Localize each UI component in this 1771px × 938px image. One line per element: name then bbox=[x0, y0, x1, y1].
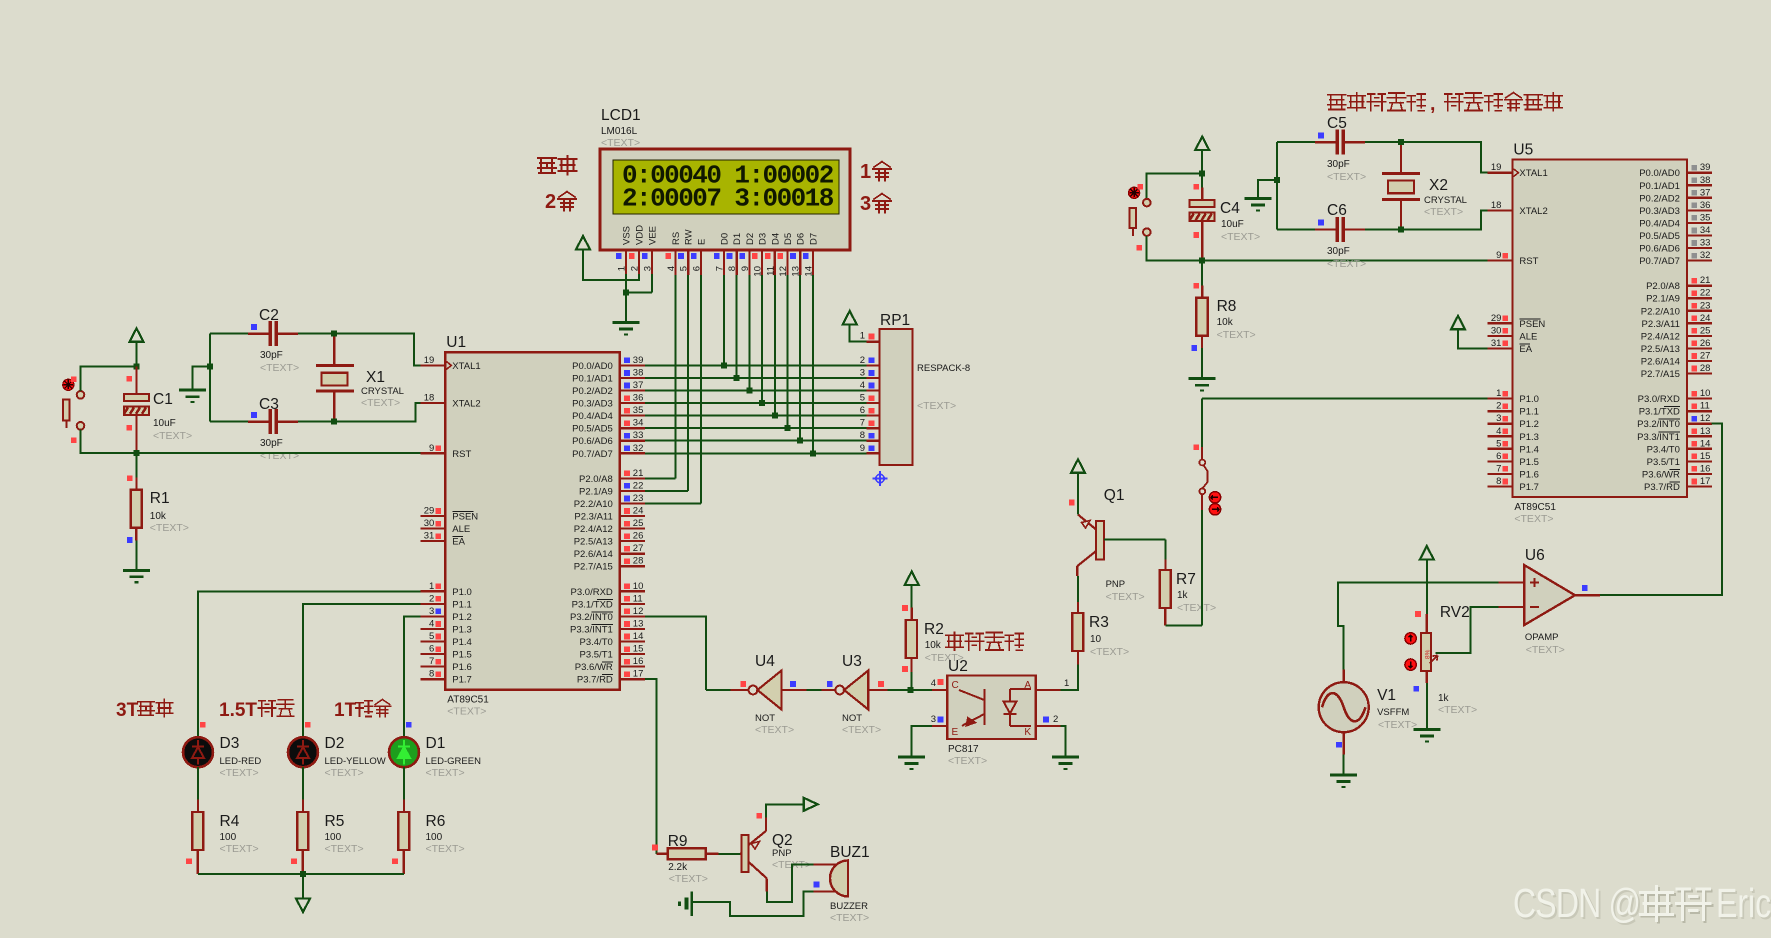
capacitor C3 bbox=[270, 409, 276, 434]
state square C4 top bbox=[1193, 184, 1199, 190]
junction C4 top bbox=[1199, 171, 1205, 177]
MCU U1 AT89C51 pin 36 P0.3/AD3 bbox=[620, 402, 645, 404]
svg-text:4: 4 bbox=[931, 678, 936, 689]
wire P0.1 bus row bbox=[645, 377, 867, 379]
svg-text:P0.2/AD2: P0.2/AD2 bbox=[1639, 193, 1680, 204]
state square D1 bbox=[406, 722, 412, 728]
LCD1 pin 9 D2 bbox=[748, 250, 750, 275]
svg-text:13: 13 bbox=[1700, 426, 1711, 437]
capacitor C4 10uF bbox=[1190, 200, 1215, 207]
wire power to U5 EA bbox=[1458, 329, 1487, 348]
MCU U5 AT89C51 pin 36 P0.3/AD3 bbox=[1687, 209, 1712, 211]
svg-text:P1.4: P1.4 bbox=[452, 637, 472, 648]
svg-text:12: 12 bbox=[1700, 413, 1711, 424]
wire VEE down bbox=[651, 274, 653, 292]
svg-text:OPAMP: OPAMP bbox=[1525, 632, 1559, 643]
MCU U5 AT89C51 pin 14 P3.4/T0 bbox=[1687, 448, 1712, 450]
switch top lead bbox=[1201, 447, 1203, 460]
svg-text:<TEXT>: <TEXT> bbox=[1106, 591, 1145, 603]
MCU U1 AT89C51 pin 37 P0.2/AD2 bbox=[620, 389, 645, 391]
svg-text:P1.7: P1.7 bbox=[452, 675, 472, 686]
svg-text:3: 3 bbox=[429, 606, 434, 617]
state square C4 bottom bbox=[1193, 232, 1199, 238]
origin marker cursor bbox=[873, 471, 888, 486]
svg-text:25: 25 bbox=[1700, 325, 1711, 336]
svg-text:<TEXT>: <TEXT> bbox=[1424, 206, 1463, 218]
button actuator marker bbox=[63, 379, 74, 390]
state square R1 bottom bbox=[127, 537, 133, 543]
LCD1 pin 1 VSS bbox=[625, 250, 627, 275]
ground arrow LED bus bbox=[296, 899, 310, 913]
svg-text:R4: R4 bbox=[220, 813, 240, 830]
svg-text:12: 12 bbox=[633, 606, 644, 617]
wire U2 E to ground bbox=[912, 726, 932, 757]
svg-text:P1.2: P1.2 bbox=[452, 612, 472, 623]
wire D3 to R4 bbox=[197, 767, 199, 799]
wire power to C4 junction bbox=[1201, 150, 1203, 174]
svg-text:<TEXT>: <TEXT> bbox=[948, 755, 987, 767]
junction X1 bottom bbox=[331, 419, 337, 425]
svg-text:P3.3/INT1: P3.3/INT1 bbox=[570, 624, 613, 635]
X2 bottom lead bbox=[1400, 200, 1402, 230]
resistor R8 bbox=[1196, 298, 1207, 336]
svg-text:19: 19 bbox=[424, 355, 435, 366]
resistor R6 bbox=[398, 812, 409, 850]
wire power stem to VDD row bbox=[582, 250, 584, 282]
MCU U5 AT89C51 pin 4 P1.3 bbox=[1487, 435, 1512, 437]
power terminal U5 EA bbox=[1451, 316, 1465, 330]
MCU U5 AT89C51 pin 18 XTAL2 bbox=[1487, 209, 1512, 211]
svg-text:RW: RW bbox=[684, 229, 695, 245]
svg-text:P1.4: P1.4 bbox=[1519, 444, 1539, 455]
svg-text:P2.0/A8: P2.0/A8 bbox=[1646, 281, 1680, 292]
svg-text:7: 7 bbox=[1496, 463, 1501, 474]
svg-text:10k: 10k bbox=[150, 511, 167, 522]
ground V1 bbox=[1330, 775, 1357, 787]
wire U5 P1.0 row bbox=[1202, 397, 1487, 399]
wire U5 P3.2 to U6 output bbox=[1600, 424, 1722, 596]
svg-text:PNP: PNP bbox=[772, 848, 792, 859]
svg-text:29: 29 bbox=[1491, 313, 1502, 324]
state square U3 input bbox=[878, 681, 884, 687]
wire battery to BUZ1 bottom bbox=[692, 892, 814, 917]
wire R7 to switch column bbox=[1165, 625, 1202, 627]
svg-text:R3: R3 bbox=[1089, 614, 1109, 631]
svg-text:<TEXT>: <TEXT> bbox=[1526, 644, 1565, 656]
MCU U5 AT89C51 pin 11 P3.1/TXD bbox=[1687, 410, 1712, 412]
button2 actuator marker bbox=[1129, 187, 1140, 198]
wire LCD D1 to P0.1 bbox=[736, 275, 738, 378]
wire R1 to ground bbox=[135, 540, 137, 570]
wire LCD RS down bbox=[675, 275, 677, 479]
svg-text:U6: U6 bbox=[1525, 547, 1545, 564]
svg-text:31: 31 bbox=[424, 531, 435, 542]
svg-text:P3.4/T0: P3.4/T0 bbox=[1647, 444, 1680, 455]
svg-text:8: 8 bbox=[860, 430, 865, 441]
svg-text:100: 100 bbox=[426, 832, 443, 843]
svg-text:P0.5/AD5: P0.5/AD5 bbox=[1639, 231, 1680, 242]
svg-text:2: 2 bbox=[860, 355, 865, 366]
junction D4/P0.4 bbox=[772, 413, 778, 419]
ground below LCD bbox=[613, 323, 640, 335]
MCU U1 AT89C51 pin 38 P0.1/AD1 bbox=[620, 377, 645, 379]
wire power to R2 bbox=[911, 585, 913, 608]
MCU U5 AT89C51 pin 34 P0.5/AD5 bbox=[1687, 234, 1712, 236]
wire C3 row to XTAL2 bbox=[298, 403, 421, 422]
junction U5 RST row bbox=[1199, 257, 1205, 263]
svg-text:,: , bbox=[1430, 93, 1435, 115]
svg-text:P2.2/A10: P2.2/A10 bbox=[1641, 306, 1680, 317]
wire button2 top bbox=[1147, 174, 1203, 198]
ground U2 emitter bbox=[898, 757, 925, 769]
svg-text:P0.0/AD0: P0.0/AD0 bbox=[1639, 168, 1680, 179]
svg-text:29: 29 bbox=[424, 506, 435, 517]
svg-text:P2.1/A9: P2.1/A9 bbox=[579, 486, 613, 497]
C2 right lead bbox=[276, 333, 298, 335]
svg-text:P1.1: P1.1 bbox=[452, 599, 472, 610]
svg-text:<TEXT>: <TEXT> bbox=[325, 767, 364, 779]
wire P0.5 bus row bbox=[645, 427, 867, 429]
LCD1 pin 12 D5 bbox=[786, 250, 788, 275]
interactive switch bbox=[1199, 460, 1207, 495]
svg-text:CRYSTAL: CRYSTAL bbox=[361, 386, 404, 397]
junction X1 top bbox=[331, 331, 337, 337]
LCD1 pin 3 VEE bbox=[651, 250, 653, 275]
svg-text:R8: R8 bbox=[1217, 298, 1237, 315]
svg-text:P0.6/AD6: P0.6/AD6 bbox=[572, 436, 613, 447]
state square R9 left bbox=[652, 845, 658, 851]
svg-text:15: 15 bbox=[1700, 451, 1711, 462]
svg-text:<TEXT>: <TEXT> bbox=[1090, 646, 1129, 658]
state square RV2 bottom bbox=[1413, 686, 1419, 692]
MCU U5 AT89C51 pin 8 P1.7 bbox=[1487, 485, 1512, 487]
svg-text:PSEN: PSEN bbox=[452, 512, 478, 523]
wire VSS down bbox=[625, 274, 627, 292]
svg-text:38: 38 bbox=[1700, 175, 1711, 186]
svg-text:1: 1 bbox=[860, 331, 865, 342]
resistor R7 bbox=[1160, 570, 1171, 608]
svg-text:E: E bbox=[952, 727, 959, 738]
RV2 bottom lead bbox=[1426, 671, 1428, 683]
state square R6 bbox=[392, 859, 398, 865]
MCU U1 AT89C51 pin 33 P0.6/AD6 bbox=[620, 440, 645, 442]
MCU U5 AT89C51 pin 25 P2.4/A12 bbox=[1687, 335, 1712, 337]
R2 top lead bbox=[911, 608, 913, 620]
svg-text:P3.2/INT0: P3.2/INT0 bbox=[570, 612, 613, 623]
svg-text:P1.2: P1.2 bbox=[1519, 419, 1539, 430]
Q2 base lead bbox=[740, 853, 742, 855]
MCU U1 AT89C51 pin 9 RST bbox=[420, 452, 445, 454]
switch bottom lead bbox=[1201, 494, 1203, 510]
MCU U1 AT89C51 pin 24 P2.3/A11 bbox=[620, 515, 645, 517]
R7 top lead bbox=[1164, 560, 1166, 571]
wire P0.2 bus row bbox=[645, 390, 867, 392]
LCD1 pin 4 RS bbox=[674, 250, 676, 275]
svg-text:34: 34 bbox=[633, 418, 644, 429]
svg-text:39: 39 bbox=[1700, 162, 1711, 173]
MCU U5 AT89C51 pin 28 P2.7/A15 bbox=[1687, 372, 1712, 374]
V1 top lead bbox=[1343, 670, 1345, 683]
svg-text:6: 6 bbox=[691, 266, 702, 271]
resistor pack RP1 RESPACK-8 body bbox=[880, 329, 913, 465]
svg-text:21: 21 bbox=[1700, 275, 1711, 286]
svg-text:<TEXT>: <TEXT> bbox=[325, 843, 364, 855]
R6 top lead bbox=[403, 800, 405, 813]
svg-text:32: 32 bbox=[1700, 250, 1711, 261]
LCD1 pin 10 D3 bbox=[761, 250, 763, 275]
MCU U5 AT89C51 pin 5 P1.4 bbox=[1487, 448, 1512, 450]
svg-text:2.2k: 2.2k bbox=[668, 862, 688, 873]
svg-text:6: 6 bbox=[1496, 451, 1501, 462]
wire LCD D5 to P0.5 bbox=[787, 275, 789, 428]
state square D2 bbox=[305, 722, 311, 728]
svg-text:P0.3/AD3: P0.3/AD3 bbox=[572, 399, 613, 410]
capacitor C6 bbox=[1337, 217, 1343, 242]
wire V1 to ground bbox=[1343, 755, 1345, 775]
svg-text:D1: D1 bbox=[426, 735, 446, 752]
signal generator V1 VSFFM bbox=[1319, 682, 1369, 732]
switch actuator up bbox=[1209, 492, 1220, 503]
svg-text:13: 13 bbox=[633, 618, 644, 629]
svg-text:26: 26 bbox=[1700, 338, 1711, 349]
state square R8 top bbox=[1194, 283, 1200, 289]
svg-text:1: 1 bbox=[860, 161, 871, 183]
junction xtal2 ground tee bbox=[1274, 177, 1280, 183]
svg-text:30: 30 bbox=[1491, 325, 1502, 336]
MCU U1 AT89C51 pin 27 P2.6/A14 bbox=[620, 553, 645, 555]
X2 top lead bbox=[1400, 142, 1402, 173]
svg-text:VDD: VDD bbox=[635, 225, 646, 245]
C5 right lead bbox=[1343, 141, 1365, 143]
MCU U5 AT89C51 bbox=[1512, 160, 1687, 498]
C2 left lead bbox=[248, 333, 270, 335]
svg-text:<TEXT>: <TEXT> bbox=[1221, 231, 1260, 243]
wire U4 to U3 bbox=[807, 689, 822, 691]
svg-text:22: 22 bbox=[633, 480, 644, 491]
svg-text:RST: RST bbox=[1519, 256, 1538, 267]
MCU U5 AT89C51 pin 26 P2.5/A13 bbox=[1687, 347, 1712, 349]
state square Q1 emitter bbox=[1069, 500, 1075, 506]
svg-text:2: 2 bbox=[429, 593, 434, 604]
svg-text:C1: C1 bbox=[153, 391, 173, 408]
MCU U1 AT89C51 pin 26 P2.5/A13 bbox=[620, 540, 645, 542]
svg-text:D4: D4 bbox=[770, 233, 781, 245]
RP1 pin 5 bbox=[867, 402, 880, 404]
MCU U5 AT89C51 pin 35 P0.4/AD4 bbox=[1687, 222, 1712, 224]
svg-text:39: 39 bbox=[633, 355, 644, 366]
MCU U1 AT89C51 XTAL1 clock marker bbox=[446, 361, 451, 369]
state square U4 output bbox=[740, 681, 746, 687]
svg-text:LED-YELLOW: LED-YELLOW bbox=[325, 756, 386, 767]
U6 plus marker bbox=[1530, 578, 1539, 587]
svg-text:38: 38 bbox=[633, 367, 644, 378]
svg-text:<TEXT>: <TEXT> bbox=[1378, 719, 1417, 731]
svg-text:<TEXT>: <TEXT> bbox=[153, 430, 192, 442]
junction D6/P0.6 bbox=[797, 438, 803, 444]
X1 top lead bbox=[333, 334, 335, 366]
wire E to P2.2 bbox=[645, 502, 701, 504]
svg-text:14: 14 bbox=[633, 631, 644, 642]
svg-text:Eric: Eric bbox=[1716, 880, 1771, 926]
wire RW to P2.1 bbox=[645, 490, 688, 492]
capacitor C5 bbox=[1337, 130, 1343, 155]
RP1 pin 2 bbox=[867, 364, 880, 366]
wire power to RV2 bbox=[1426, 560, 1428, 614]
MCU U1 AT89C51 pin 12 P3.2/INT0 bbox=[620, 615, 645, 617]
MCU U5 AT89C51 pin 1 P1.0 bbox=[1487, 398, 1512, 400]
MCU U1 AT89C51 pin 14 P3.4/T0 bbox=[620, 640, 645, 642]
watermark chinese shadow bbox=[1642, 888, 1674, 922]
svg-text:BUZZER: BUZZER bbox=[830, 901, 868, 912]
U2 phototransistor symbol bbox=[959, 689, 984, 726]
wire C5 row to U5 XTAL1 bbox=[1365, 142, 1487, 173]
LCD1 pin 13 D6 bbox=[799, 250, 801, 275]
wire LCD D2 to P0.2 bbox=[748, 275, 750, 391]
svg-text:5: 5 bbox=[860, 393, 865, 404]
svg-text:XTAL1: XTAL1 bbox=[1519, 168, 1547, 179]
MCU U1 AT89C51 pin 4 P1.3 bbox=[420, 628, 445, 630]
power terminal above RP1 bbox=[843, 311, 857, 325]
ground xtal2 cluster bbox=[1244, 199, 1271, 211]
MCU U5 AT89C51 pin 16 P3.6/WR bbox=[1687, 473, 1712, 475]
svg-text:3: 3 bbox=[643, 266, 654, 271]
svg-text:D7: D7 bbox=[808, 233, 819, 245]
wire V1 to U6 + bbox=[1338, 582, 1498, 669]
svg-text:3: 3 bbox=[1496, 413, 1501, 424]
wire LED ground bus bbox=[198, 873, 404, 875]
MCU U5 AT89C51 pin 31 ('', 'EA') bbox=[1487, 347, 1512, 349]
svg-text:RESPACK-8: RESPACK-8 bbox=[917, 363, 970, 374]
wire R2 to row bbox=[910, 672, 912, 690]
MCU U1 AT89C51 pin 13 P3.3/INT1 bbox=[620, 628, 645, 630]
svg-text:P2.7/A15: P2.7/A15 bbox=[1641, 369, 1680, 380]
junction D5/P0.5 bbox=[785, 425, 791, 431]
svg-text:D2: D2 bbox=[325, 735, 345, 752]
R8 top lead bbox=[1201, 285, 1203, 298]
R7 bottom lead bbox=[1164, 608, 1166, 626]
wire R8 to ground bbox=[1201, 348, 1203, 379]
X1 bottom lead bbox=[333, 391, 335, 422]
svg-text:<TEXT>: <TEXT> bbox=[842, 724, 881, 736]
svg-text:V1: V1 bbox=[1377, 687, 1396, 704]
wire VEE to VSS join bbox=[626, 291, 652, 293]
C5 left lead bbox=[1315, 141, 1337, 143]
C1 bottom lead bbox=[135, 416, 137, 453]
svg-text:D3: D3 bbox=[220, 735, 240, 752]
svg-text:P1.5: P1.5 bbox=[1519, 457, 1539, 468]
RP1 pin 1 bbox=[867, 341, 880, 343]
svg-text:P2.7/A15: P2.7/A15 bbox=[574, 562, 613, 573]
svg-text:P2.3/A11: P2.3/A11 bbox=[574, 512, 612, 523]
junction X2 bottom bbox=[1398, 227, 1404, 233]
wire junction to R1 bbox=[136, 453, 138, 477]
svg-text:23: 23 bbox=[1700, 300, 1711, 311]
svg-text:P0.1/AD1: P0.1/AD1 bbox=[572, 373, 613, 384]
wire C2 left to column bbox=[210, 333, 248, 335]
svg-text:9: 9 bbox=[429, 443, 434, 454]
wire Q2 collector to BUZ1 bbox=[767, 865, 814, 903]
svg-text:25: 25 bbox=[633, 518, 644, 529]
state square C1 top bbox=[127, 376, 133, 382]
wire P3.7 to R9 bbox=[645, 679, 657, 854]
wire xtal left column bbox=[209, 334, 211, 422]
svg-text:26: 26 bbox=[633, 531, 644, 542]
svg-text:D2: D2 bbox=[745, 233, 756, 245]
svg-text:21: 21 bbox=[633, 468, 644, 479]
svg-text:RST: RST bbox=[452, 449, 471, 460]
MCU U1 AT89C51 pin 31 ('', 'EA') bbox=[420, 540, 445, 542]
C6 left lead bbox=[1315, 228, 1337, 230]
svg-text:AT89C51: AT89C51 bbox=[447, 695, 489, 706]
svg-text:P0.1/AD1: P0.1/AD1 bbox=[1639, 181, 1680, 192]
LCD1 pin 6 E bbox=[700, 250, 702, 275]
U2 internal diode bbox=[1004, 689, 1032, 726]
svg-text:P2.5/A13: P2.5/A13 bbox=[574, 537, 613, 548]
MCU U1 AT89C51 pin 3 P1.2 bbox=[420, 615, 445, 617]
svg-text:P1.3: P1.3 bbox=[452, 624, 472, 635]
svg-text:Q2: Q2 bbox=[772, 832, 793, 849]
state square V1 bbox=[1336, 742, 1342, 748]
svg-text:<TEXT>: <TEXT> bbox=[1327, 258, 1366, 270]
svg-text:2: 2 bbox=[630, 266, 641, 271]
svg-text:<TEXT>: <TEXT> bbox=[426, 767, 465, 779]
svg-text:10: 10 bbox=[1700, 388, 1711, 399]
svg-text:P0.7/AD7: P0.7/AD7 bbox=[572, 449, 613, 460]
wire LCD D4 to P0.4 bbox=[774, 275, 776, 416]
svg-text:ALE: ALE bbox=[452, 524, 470, 535]
ground RV2 bbox=[1413, 730, 1440, 742]
wire U2 A to R3 bbox=[1061, 664, 1078, 690]
MCU U5 AT89C51 pin 30 ALE bbox=[1487, 335, 1512, 337]
wire C2 row to XTAL1 bbox=[298, 334, 421, 366]
svg-text:RS: RS bbox=[671, 232, 682, 245]
svg-text:30pF: 30pF bbox=[1327, 159, 1350, 170]
state square button bottom bbox=[71, 438, 77, 444]
state square switch bbox=[1194, 444, 1200, 450]
MCU U1 AT89C51 pin 11 P3.1/TXD bbox=[620, 603, 645, 605]
MCU U1 AT89C51 pin 30 ALE bbox=[420, 527, 445, 529]
wire P0.6 bus row bbox=[645, 440, 867, 442]
wire P1.2 to D1 bbox=[404, 616, 421, 737]
MCU U1 AT89C51 pin 7 P1.6 bbox=[420, 665, 445, 667]
svg-text:27: 27 bbox=[633, 543, 644, 554]
MCU U1 AT89C51 pin 25 P2.4/A12 bbox=[620, 527, 645, 529]
R2 bottom lead bbox=[910, 658, 912, 672]
state square R1 top bbox=[127, 475, 133, 481]
state square Q2 emitter bbox=[757, 813, 763, 819]
MCU U1 AT89C51 pin 18 XTAL2 bbox=[420, 402, 445, 404]
svg-text:1: 1 bbox=[429, 581, 434, 592]
svg-text:100: 100 bbox=[325, 832, 342, 843]
MCU U5 AT89C51 pin 15 P3.5/T1 bbox=[1687, 460, 1712, 462]
U6 output lead bbox=[1575, 594, 1600, 596]
svg-text:36: 36 bbox=[1700, 200, 1711, 211]
svg-text:P3.1/TXD: P3.1/TXD bbox=[1639, 407, 1680, 418]
svg-text:6: 6 bbox=[860, 405, 865, 416]
state square U6 output bbox=[1582, 585, 1588, 591]
svg-text:8: 8 bbox=[429, 669, 434, 680]
svg-text:2: 2 bbox=[545, 191, 556, 213]
MCU U1 AT89C51 pin 23 P2.2/A10 bbox=[620, 502, 645, 504]
arrow terminal Q2 supply bbox=[804, 798, 818, 811]
svg-text:<TEXT>: <TEXT> bbox=[1177, 602, 1216, 614]
svg-text:P0.2/AD2: P0.2/AD2 bbox=[572, 386, 613, 397]
C3 left lead bbox=[248, 421, 270, 423]
svg-text:30: 30 bbox=[424, 518, 435, 529]
svg-text:16: 16 bbox=[1700, 463, 1711, 474]
MCU U1 AT89C51 pin 1 P1.0 bbox=[420, 590, 445, 592]
svg-text:XTAL2: XTAL2 bbox=[1519, 206, 1547, 217]
